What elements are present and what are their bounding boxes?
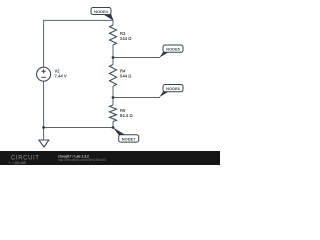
svg-text:http://circuitlab.com/c/9rhk39: http://circuitlab.com/c/9rhk39z4z0l [58,158,106,162]
svg-text:NODE4: NODE4 [94,9,109,14]
svg-text:NODE7: NODE7 [122,137,137,142]
svg-text:544 Ω: 544 Ω [120,74,132,79]
svg-text:244 Ω: 244 Ω [120,36,132,41]
svg-text:7.44 V: 7.44 V [55,74,67,79]
svg-text:NODE5: NODE5 [166,47,181,52]
svg-text:NODE6: NODE6 [166,86,181,91]
svg-text:84.4 Ω: 84.4 Ω [120,113,133,118]
svg-text:∿∿▤LAB: ∿∿▤LAB [8,160,26,165]
